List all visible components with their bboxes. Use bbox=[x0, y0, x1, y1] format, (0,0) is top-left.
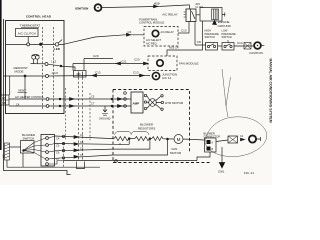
ignition ring bottom right bbox=[249, 135, 256, 142]
svg-text:C7: C7 bbox=[80, 153, 84, 157]
svg-text:MOTOR: MOTOR bbox=[170, 151, 182, 155]
svg-text:SWITCH: SWITCH bbox=[23, 137, 35, 141]
balloon inset curve bbox=[205, 117, 267, 157]
row tap2 to switch bbox=[55, 149, 113, 151]
left edge connector box bbox=[1, 95, 9, 105]
row feed to switch bbox=[55, 136, 113, 139]
ground arrow drop bbox=[221, 147, 223, 163]
svg-text:GROUND: GROUND bbox=[218, 24, 232, 28]
svg-text:C6: C6 bbox=[56, 151, 60, 155]
terminal circle row C bbox=[45, 63, 48, 66]
connector dashes mid1 bbox=[65, 88, 67, 140]
fan module dashed box bbox=[148, 56, 177, 71]
connector dashed column 2 bbox=[82, 78, 84, 161]
svg-text:C13: C13 bbox=[95, 71, 101, 75]
svg-text:C4: C4 bbox=[56, 137, 60, 141]
wire corner to connector bbox=[83, 59, 85, 71]
wire row to fan module bbox=[73, 63, 148, 65]
svg-text:A/C HEATER CONTROL: A/C HEATER CONTROL bbox=[15, 95, 44, 99]
relay leg1 bbox=[188, 22, 190, 34]
fan taps right bbox=[156, 97, 161, 109]
connector pin B bbox=[207, 147, 211, 151]
svg-text:THERMOSTAT: THERMOSTAT bbox=[20, 24, 40, 28]
wire resistor to switch bbox=[10, 146, 22, 148]
low pressure switch S3 bbox=[222, 43, 234, 51]
row connector circles bbox=[62, 135, 64, 137]
fuse drop to low switch bbox=[227, 40, 229, 43]
jumper loop bbox=[77, 162, 85, 169]
svg-text:IGNITION: IGNITION bbox=[250, 51, 263, 55]
svg-text:C20: C20 bbox=[134, 58, 140, 62]
row tap1 to switch bbox=[55, 143, 113, 146]
A/C clutch switch box bbox=[16, 29, 39, 37]
big dashed box HVAC bbox=[113, 90, 210, 163]
ground arrow G100 bbox=[103, 106, 107, 112]
wire row1 to right bbox=[49, 98, 131, 100]
wire defrost row bbox=[4, 75, 46, 77]
svg-text:HTR MOTOR: HTR MOTOR bbox=[165, 101, 184, 105]
switch drop wire bbox=[22, 153, 24, 167]
A/C relay K1 bbox=[186, 9, 196, 22]
wire A/C select to PCM bbox=[64, 35, 144, 44]
thermostat pot ring 2 bbox=[35, 55, 39, 59]
svg-text:C7: C7 bbox=[91, 102, 95, 106]
switch pivot bbox=[23, 150, 25, 152]
terminal circles col bbox=[124, 92, 127, 95]
fan motor M circle bbox=[174, 135, 183, 144]
wire motor to connector bbox=[183, 139, 205, 140]
resistor R3 zigzag bbox=[152, 137, 163, 141]
wire PCM to relay coil bbox=[178, 32, 189, 34]
junction dot row A bbox=[40, 43, 42, 45]
pot stems bbox=[34, 59, 38, 63]
wire ignition to relay bbox=[101, 5, 189, 8]
arrows into resistor block bbox=[118, 98, 123, 101]
junction dot tap2 bbox=[149, 138, 151, 140]
junction dot tap1 bbox=[128, 138, 130, 140]
svg-text:C7: C7 bbox=[56, 157, 60, 161]
svg-text:A2: A2 bbox=[2, 154, 6, 158]
thermostat pot ring 1 bbox=[32, 55, 36, 59]
fan symbol circle bbox=[149, 99, 157, 107]
svg-text:FAN MODULE: FAN MODULE bbox=[179, 62, 199, 66]
svg-text:AMP: AMP bbox=[133, 102, 140, 106]
illumination resistor hatched bbox=[5, 143, 10, 160]
fan spokes bbox=[150, 100, 155, 105]
splice box X right bbox=[228, 136, 238, 143]
connector strip dashed bottom left bbox=[63, 143, 65, 168]
svg-text:G301: G301 bbox=[218, 170, 225, 174]
blower switch box bbox=[21, 141, 35, 154]
wire connector to splice box bbox=[216, 140, 228, 142]
wire row splice bbox=[92, 75, 150, 77]
svg-text:C21: C21 bbox=[121, 60, 127, 64]
left connector divider bbox=[1, 99, 9, 101]
arrow to ring bbox=[241, 138, 245, 141]
terminal circle defrost row bbox=[46, 75, 49, 78]
svg-text:LED: LED bbox=[54, 47, 61, 51]
resistor tap 3 bbox=[113, 139, 168, 155]
wire row A left bbox=[6, 43, 65, 45]
wires block to fan bbox=[147, 96, 150, 109]
blower resistor block box bbox=[131, 92, 143, 113]
svg-text:M: M bbox=[177, 137, 181, 142]
terminal circle row2 bbox=[46, 105, 49, 108]
junction dot box edge bbox=[60, 65, 62, 67]
resistor R1 zigzag bbox=[114, 137, 129, 141]
relay internals bbox=[191, 9, 196, 22]
wire label C3 arrow bbox=[127, 33, 131, 36]
svg-text:A/C RELAY: A/C RELAY bbox=[161, 30, 175, 34]
fuse lead right bbox=[222, 13, 225, 17]
resistor tap 2 bbox=[113, 139, 150, 150]
svg-text:CONTROL HEAD: CONTROL HEAD bbox=[26, 15, 52, 19]
junction dots rows bbox=[59, 98, 61, 100]
wire resistor bottom run bbox=[7, 160, 100, 167]
terminal circle row1 bbox=[46, 98, 49, 101]
fuse F5 box bbox=[200, 8, 222, 22]
left drop wire bbox=[9, 76, 11, 95]
svg-text:C20: C20 bbox=[93, 54, 99, 58]
connector pin stubs bbox=[77, 72, 83, 78]
wires terminals to rows bbox=[48, 136, 63, 164]
wires switch to terminals bbox=[34, 138, 46, 159]
engine ground arrow bbox=[213, 20, 217, 24]
block terminals bbox=[144, 94, 146, 96]
wire R3 to motor bbox=[163, 138, 174, 140]
svg-text:C14: C14 bbox=[237, 41, 243, 45]
wire row C20 bbox=[84, 58, 113, 60]
connector strip dashed bottom mid bbox=[119, 143, 121, 145]
PCM driver ring bbox=[152, 30, 158, 36]
thermostat underline bbox=[21, 26, 39, 28]
svg-text:A/C 14: A/C 14 bbox=[162, 76, 172, 80]
connector dashed column 1 bbox=[78, 78, 80, 161]
vent underline bbox=[18, 91, 28, 93]
svg-text:A/C CLUTCH: A/C CLUTCH bbox=[18, 31, 36, 35]
wire R2-R3 bbox=[150, 138, 152, 140]
svg-text:C3: C3 bbox=[128, 30, 132, 34]
row tap3 to switch bbox=[55, 155, 113, 158]
wire row1 in head bbox=[9, 98, 46, 100]
fuse element bbox=[212, 9, 219, 20]
switch blades bbox=[24, 143, 35, 153]
wire row C exits control head bbox=[48, 64, 75, 70]
splice grommet ring bbox=[152, 72, 159, 79]
resistor chain feed bbox=[113, 138, 114, 140]
svg-text:A16 14: A16 14 bbox=[169, 46, 179, 50]
svg-text:A/C SELECT: A/C SELECT bbox=[146, 38, 162, 42]
connector C1 dashed column left bbox=[42, 27, 44, 111]
vent drop wire bbox=[24, 76, 26, 99]
svg-text:C13: C13 bbox=[133, 71, 139, 75]
arrow C21 bbox=[116, 62, 121, 65]
svg-text:A/C REQ: A/C REQ bbox=[146, 41, 157, 45]
svg-text:1 C2: 1 C2 bbox=[51, 61, 57, 64]
svg-text:VENT: VENT bbox=[18, 89, 26, 93]
svg-text:PA: PA bbox=[2, 96, 6, 100]
svg-text:MODE: MODE bbox=[15, 70, 24, 74]
svg-text:C5: C5 bbox=[91, 95, 95, 99]
connector C1 dashed column right bbox=[53, 27, 55, 111]
svg-text:B: B bbox=[212, 148, 214, 151]
leader line left bbox=[222, 69, 226, 106]
svg-text:4 C23: 4 C23 bbox=[52, 72, 59, 75]
control head box bbox=[6, 21, 65, 114]
wire row2 in head bbox=[9, 105, 46, 107]
wire to high pressure switch bbox=[195, 44, 206, 46]
svg-text:C4: C4 bbox=[80, 133, 84, 137]
junction dot tap3 bbox=[167, 138, 169, 140]
junction dot defrost bbox=[24, 75, 26, 77]
blower terminal box bbox=[41, 135, 55, 167]
svg-text:C5: C5 bbox=[56, 144, 60, 148]
svg-text:SWITCH: SWITCH bbox=[222, 35, 232, 39]
resistor R2 zigzag bbox=[135, 137, 150, 141]
connector pin A bbox=[207, 140, 211, 144]
svg-text:C6: C6 bbox=[80, 147, 84, 151]
svg-text:C1: C1 bbox=[240, 134, 244, 138]
row bottom common bbox=[63, 160, 197, 162]
svg-text:CONTROL MODULE: CONTROL MODULE bbox=[139, 21, 164, 25]
arrow left end bbox=[92, 74, 97, 77]
splice box X bbox=[244, 43, 251, 50]
svg-text:C8: C8 bbox=[197, 40, 201, 44]
wire between switches bbox=[218, 45, 223, 47]
label A15 arrow bbox=[154, 5, 159, 8]
fan module ring bbox=[157, 60, 163, 66]
wire relay to fuse bbox=[196, 14, 200, 16]
svg-text:RESISTORS: RESISTORS bbox=[138, 127, 155, 131]
scan edge bar left bbox=[0, 0, 2, 150]
resistor tap 1 bbox=[113, 139, 129, 145]
relay leg2 bbox=[194, 22, 196, 46]
svg-text:IGNITION: IGNITION bbox=[75, 6, 88, 10]
arrows on rows bbox=[74, 136, 79, 139]
svg-text:A/C RELAY: A/C RELAY bbox=[162, 13, 177, 17]
arrow into module bbox=[144, 62, 149, 65]
fuse hatch bbox=[213, 9, 217, 20]
wire row C in head bbox=[31, 63, 46, 65]
arrow into splice bbox=[140, 74, 145, 77]
wire defrost row exit bbox=[49, 75, 93, 78]
leader stem bbox=[226, 106, 228, 117]
terminal circle clutch bbox=[27, 43, 30, 46]
brace bbox=[115, 132, 150, 135]
ignition terminal ring right bbox=[254, 42, 261, 49]
outer border bbox=[4, 19, 71, 175]
svg-text:A15: A15 bbox=[154, 2, 160, 6]
blower connector box bbox=[205, 138, 217, 152]
mode connector box bbox=[74, 71, 87, 78]
svg-text:C13: C13 bbox=[181, 29, 187, 33]
ignition terminal ring top bbox=[95, 4, 102, 11]
svg-text:FIG. 21: FIG. 21 bbox=[244, 171, 254, 175]
high pressure switch S2 bbox=[206, 43, 218, 51]
relay coil ticks bbox=[184, 12, 186, 17]
connector dashes mid2 bbox=[89, 93, 91, 140]
terminal circles bbox=[46, 137, 49, 140]
pot cap arc bbox=[32, 55, 40, 56]
svg-text:NB: NB bbox=[2, 101, 6, 105]
svg-text:C5: C5 bbox=[80, 140, 84, 144]
corner down to connector bbox=[72, 64, 74, 71]
fuse leg to fan module wire bbox=[167, 21, 203, 56]
switch contact circle bbox=[55, 43, 58, 46]
switch blade bbox=[58, 40, 62, 44]
common row terminal ring bbox=[115, 160, 118, 163]
relay top stub bbox=[189, 5, 191, 9]
connector ground drop bbox=[197, 152, 210, 161]
svg-text:A: A bbox=[212, 142, 214, 145]
wire clutch stem bbox=[27, 37, 29, 43]
svg-text:GROUND: GROUND bbox=[99, 117, 111, 121]
svg-text:SWITCH: SWITCH bbox=[205, 35, 215, 39]
ground arrowhead bbox=[219, 163, 224, 169]
ring lead bbox=[256, 137, 260, 141]
wire R1-R2 bbox=[129, 138, 135, 140]
leader line right bbox=[226, 77, 231, 106]
PCM dashed box bbox=[144, 27, 178, 47]
wire row2 to right bbox=[49, 105, 131, 107]
svg-text:MANUAL AIR CONDITIONING SYSTEM: MANUAL AIR CONDITIONING SYSTEM bbox=[269, 59, 273, 123]
wire to ignition right bbox=[234, 45, 254, 47]
arrows rows mid bbox=[70, 98, 75, 101]
